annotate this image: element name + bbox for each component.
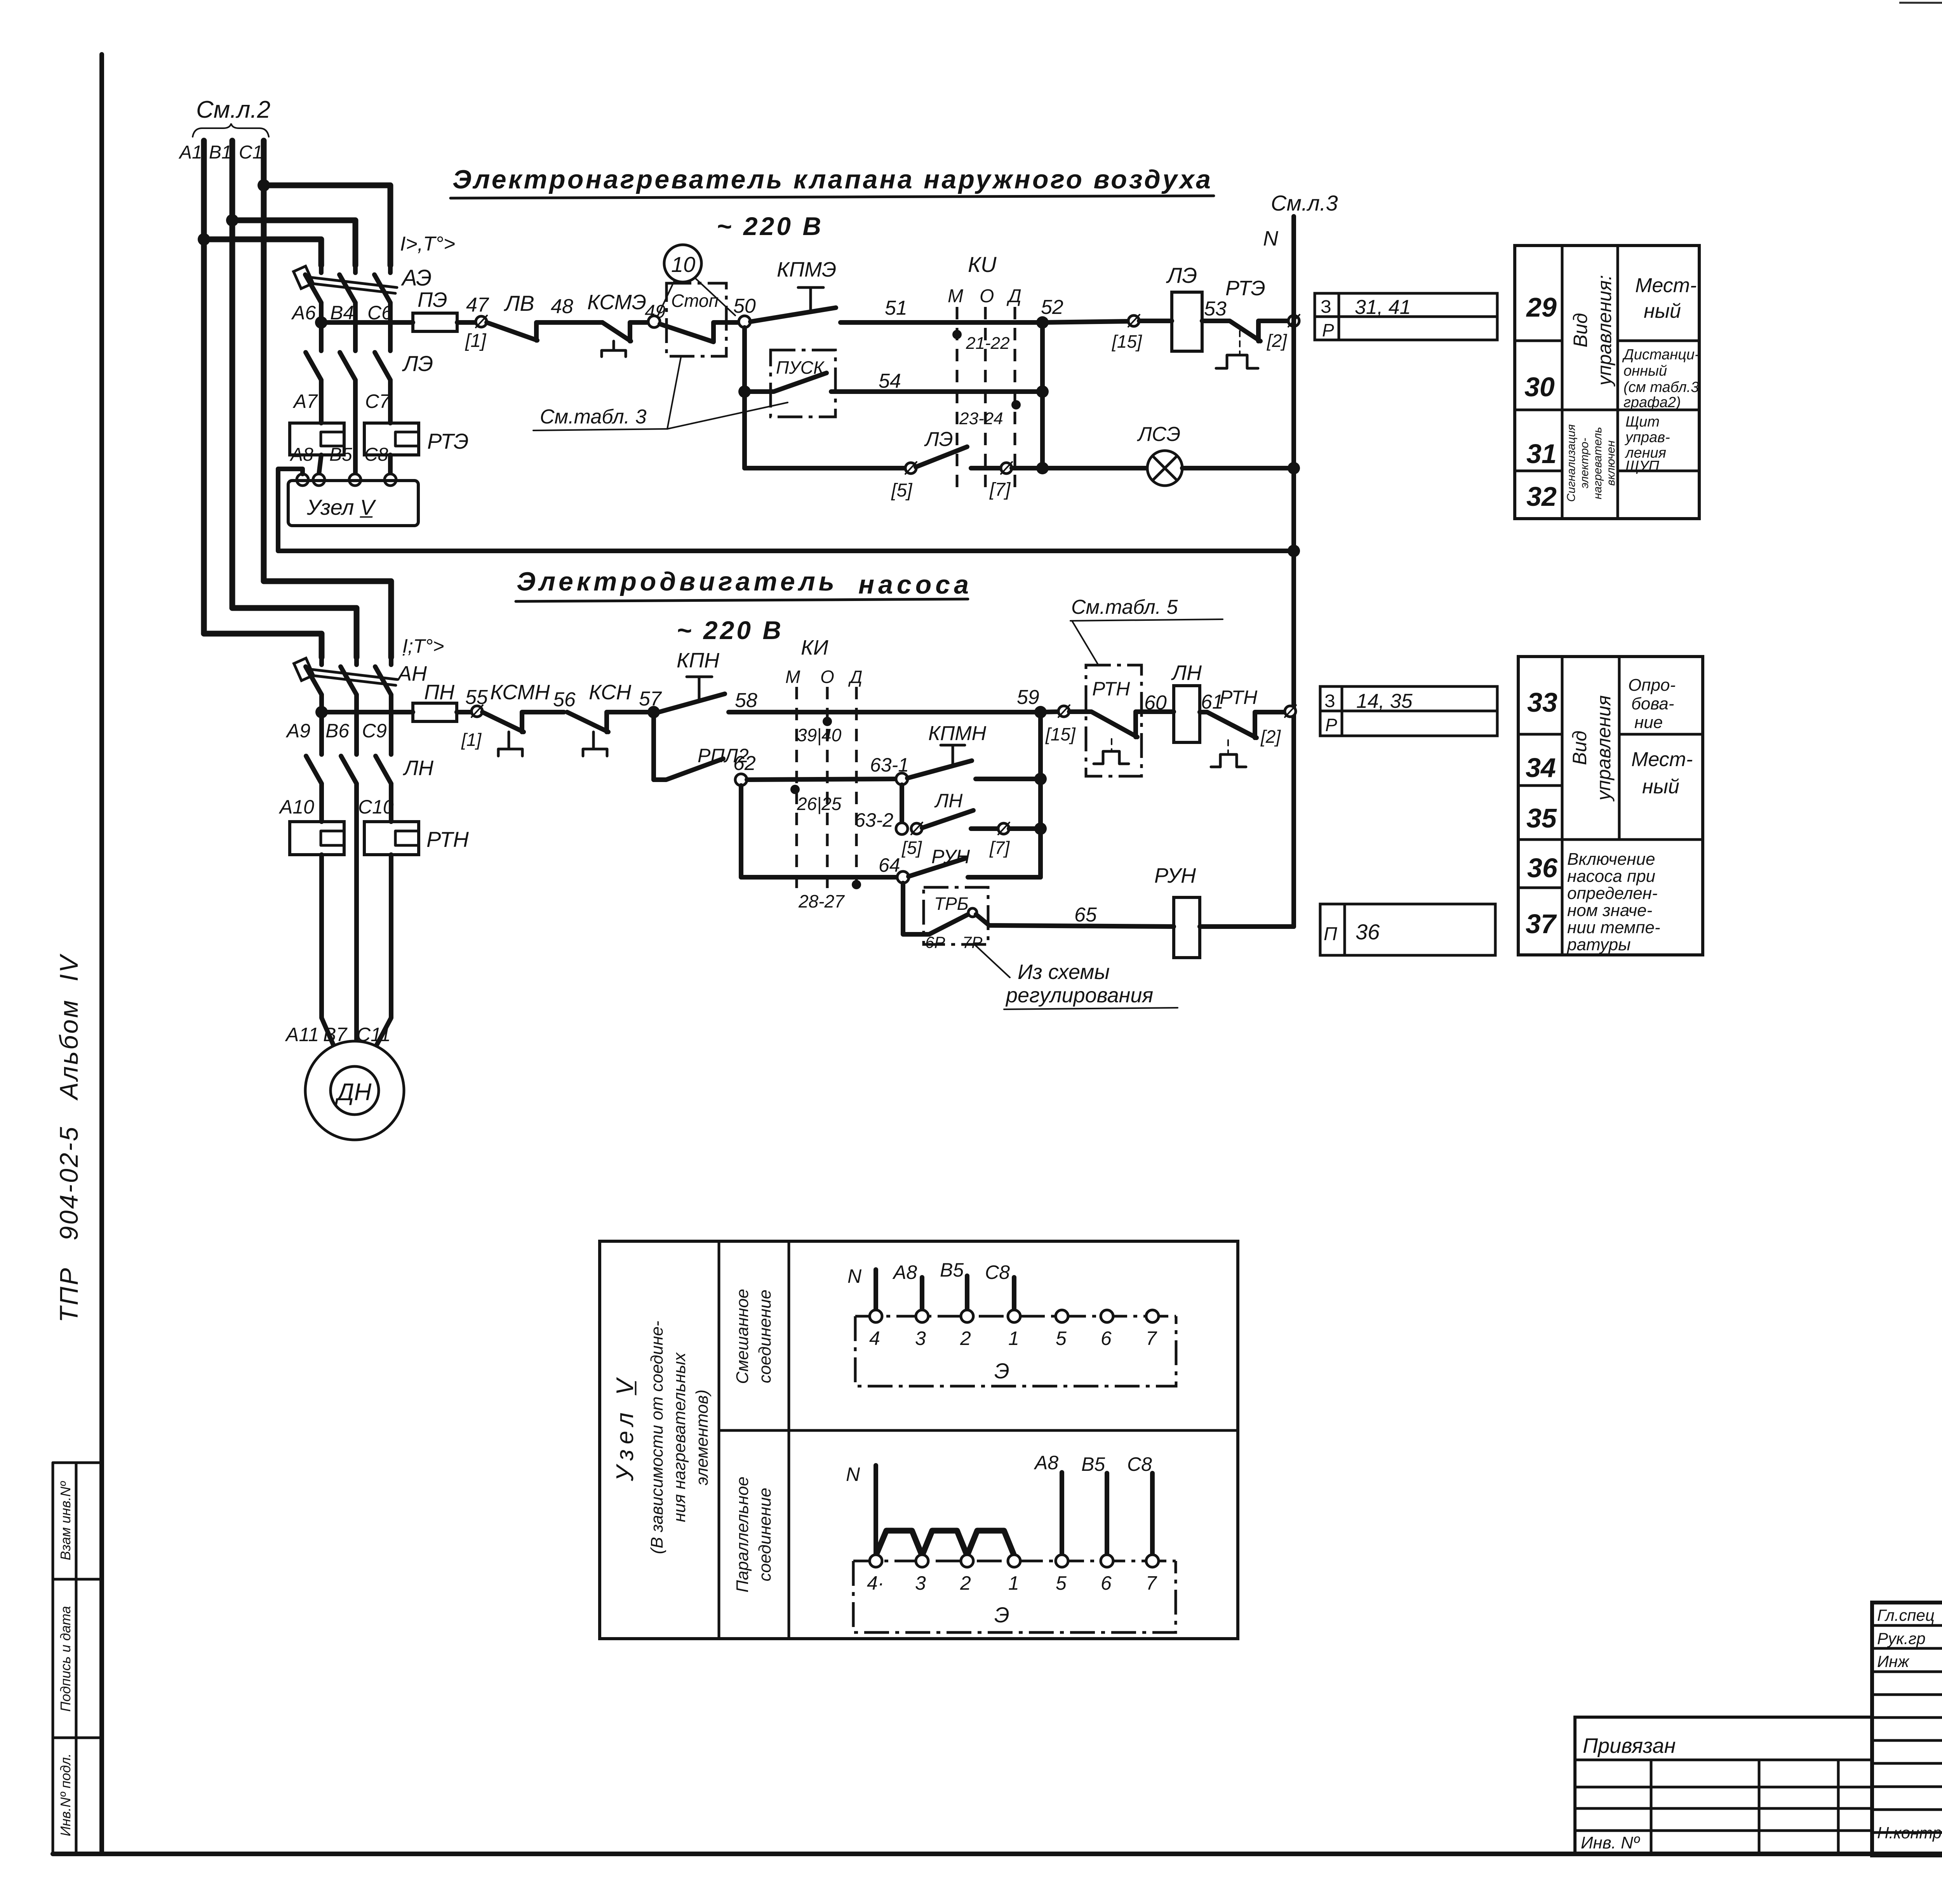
svg-text:(В зависимости от соедине-: (В зависимости от соедине- (647, 1321, 666, 1554)
wire РУН coil to N (1200, 924, 1294, 929)
svg-text:С8: С8 (1127, 1453, 1152, 1475)
terminal 55 (472, 706, 482, 717)
svg-text:См.л.2: См.л.2 (196, 96, 270, 123)
limit switch КСМЭ (NC with plunger) (602, 322, 649, 341)
svg-text:Сигнализация: Сигнализация (1565, 424, 1578, 502)
wire fuse to terminal 55 (457, 710, 472, 714)
svg-text:А8: А8 (289, 444, 313, 465)
svg-text:В1: В1 (209, 142, 232, 163)
contactor ЛН pole С (376, 714, 391, 822)
circuit breaker АЭ pole В (339, 265, 355, 323)
svg-text:ния нагревательных: ния нагревательных (670, 1352, 689, 1522)
svg-text:ПЭ: ПЭ (418, 288, 447, 312)
svg-text:насоса при: насоса при (1567, 867, 1655, 886)
terminal 3 (916, 1310, 928, 1322)
svg-text:ЩУП: ЩУП (1625, 458, 1659, 474)
selector КИ dashed line Д motor (855, 687, 858, 895)
svg-text:В5: В5 (1081, 1453, 1105, 1475)
relay coil РУН (1174, 897, 1200, 958)
svg-text:Смешанное: Смешанное (733, 1289, 752, 1384)
svg-text:65: 65 (1074, 904, 1097, 926)
fuse ПН (413, 703, 457, 721)
svg-text:57: 57 (639, 688, 662, 710)
wire 51 to node 52 (954, 320, 1042, 325)
svg-text:4·: 4· (867, 1572, 884, 1594)
terminal [7] motor (998, 823, 1009, 834)
selector КИ dashed line Д (1014, 307, 1016, 494)
svg-text:АЭ: АЭ (401, 265, 432, 291)
svg-text:36: 36 (1356, 920, 1380, 944)
svg-text:ном значе-: ном значе- (1567, 901, 1652, 920)
svg-text:29: 29 (1526, 292, 1557, 322)
contactor ЛЭ pole А (306, 323, 321, 423)
terminal 1 parallel (1008, 1555, 1020, 1567)
contact РТЭ (NC thermal) (1202, 321, 1289, 341)
title block personnel table (1872, 1603, 1942, 1855)
svg-text:ЛЭ: ЛЭ (402, 351, 433, 376)
svg-text:ТРБ: ТРБ (934, 894, 969, 914)
svg-text:[5]: [5] (891, 480, 913, 501)
svg-text:С8: С8 (985, 1261, 1010, 1283)
thermal symbol РТН (1094, 751, 1129, 764)
svg-text:регулирования: регулирования (1005, 984, 1153, 1007)
svg-text:КСМЭ: КСМЭ (587, 291, 646, 314)
bridge 2-1 (967, 1531, 1014, 1556)
terminal [2] motor on N (1285, 706, 1296, 717)
selector КИ dashed line О motor (826, 687, 829, 895)
svg-text:управ-: управ- (1624, 429, 1670, 446)
terminal [2] heater on N (1288, 315, 1299, 326)
contact point 39-40 on О (823, 717, 832, 726)
svg-text:[5]: [5] (901, 838, 922, 858)
svg-text:КU: КU (968, 252, 997, 277)
junction А1 heater tap (198, 233, 210, 246)
svg-text:А8: А8 (892, 1261, 917, 1283)
terminal [15] motor (1058, 706, 1069, 717)
junction 63-1 row right (1034, 773, 1047, 785)
wire А1 bend to АН pole А (204, 634, 322, 657)
thermal symbol РТЭ (1216, 355, 1258, 368)
svg-text:14, 35: 14, 35 (1356, 690, 1413, 712)
wire 65 to РУН coil (976, 915, 1174, 927)
svg-text:32: 32 (1526, 481, 1557, 512)
svg-text:РУН: РУН (931, 846, 970, 868)
svg-text:С8: С8 (364, 444, 388, 465)
wire [7] to node (1009, 826, 1041, 831)
svg-text:Стоп: Стоп (671, 291, 719, 311)
svg-text:С9: С9 (362, 720, 387, 742)
annotation table rows 33-37 (1518, 657, 1703, 955)
bridge 3-2 (922, 1531, 967, 1556)
svg-text:Дистанци-: Дистанци- (1622, 347, 1700, 363)
svg-text:63-2: 63-2 (854, 809, 893, 831)
terminal 1 (1008, 1310, 1020, 1322)
contact point 23-24 on Д (1011, 400, 1021, 409)
heater title underline (451, 196, 1214, 198)
wire В1 bend to АН pole В (232, 608, 357, 657)
junction node 52 (1036, 316, 1049, 329)
svg-text:ЛН: ЛН (934, 790, 963, 812)
dash-dot top edge (855, 1315, 1176, 1318)
svg-text:35: 35 (1526, 803, 1557, 833)
svg-text:36: 36 (1527, 853, 1558, 883)
svg-text:51: 51 (885, 297, 907, 319)
limit switch КСМН (NC with plunger) (482, 712, 564, 732)
svg-text:элементов): элементов) (693, 1390, 712, 1486)
junction on ПУСК row (738, 385, 751, 398)
svg-text:54: 54 (879, 370, 901, 392)
svg-text:[7]: [7] (989, 838, 1010, 858)
svg-text:28-27: 28-27 (798, 891, 845, 911)
wire heater row А6 to fuse (321, 320, 413, 325)
svg-text:[7]: [7] (989, 479, 1011, 500)
terminal 2 parallel (961, 1555, 973, 1567)
wire dial 10 bubble (664, 245, 701, 282)
svg-text:А1: А1 (178, 142, 202, 163)
terminal circle N of узел V (297, 474, 308, 486)
junction return line on N (1288, 545, 1300, 557)
svg-text:Мест-: Мест- (1631, 748, 1693, 771)
svg-text:М: М (785, 667, 800, 687)
terminal 2 (961, 1310, 973, 1322)
svg-text:РТН: РТН (426, 827, 469, 852)
svg-text:63-1: 63-1 (870, 754, 909, 776)
contact РПЛ2 (NO) (654, 759, 723, 780)
wire [15] to ЛЭ coil (1139, 319, 1172, 323)
svg-text:5: 5 (1056, 1572, 1067, 1594)
svg-text:Узел V̲: Узел V̲ (612, 1373, 639, 1481)
wire РТЭ С to узел (388, 455, 393, 474)
terminal [15] heater (1128, 315, 1139, 326)
contact КПМН (NO button) (907, 761, 1035, 779)
heater block Э dash-dot box parallel (853, 1561, 1176, 1632)
contact ЛН aux (NO) (922, 810, 998, 829)
svg-text:графа2): графа2) (1624, 394, 1681, 411)
svg-text:7: 7 (1146, 1327, 1157, 1349)
leader to Стоп (667, 357, 681, 429)
svg-text:А10: А10 (278, 796, 314, 818)
wire motor row А9 to fuse (322, 710, 413, 714)
contactor ЛН pole А (306, 712, 322, 822)
svg-text:бова-: бова- (1631, 694, 1674, 713)
wire phase bus В1 (230, 141, 235, 608)
svg-text:64: 64 (879, 854, 900, 876)
svg-text:ТПР 904-02-5 Альбом IV: ТПР 904-02-5 Альбом IV (54, 953, 83, 1322)
contact Стоп (NC button) (660, 322, 739, 342)
thermal relay ТРБ box (dash-dot) (924, 887, 988, 944)
junction А6 on heater control row (315, 316, 327, 329)
junction 63-2 row right (1034, 822, 1047, 835)
svg-text:А7: А7 (292, 390, 318, 412)
terminal 7 (1146, 1310, 1159, 1322)
svg-text:Инж: Инж (1877, 1652, 1910, 1671)
motor title underline (516, 599, 968, 601)
wire between [5] blade and [7] (971, 466, 1001, 470)
svg-text:6: 6 (1101, 1572, 1112, 1594)
svg-text:ДН: ДН (335, 1079, 372, 1106)
svg-text:определен-: определен- (1567, 884, 1658, 903)
svg-text:В6: В6 (325, 720, 349, 742)
svg-text:КИ: КИ (801, 636, 828, 659)
wire neutral N vertical (1291, 216, 1296, 927)
svg-text:С10: С10 (358, 796, 394, 818)
limit switch КСН (NC with plunger) (567, 712, 648, 732)
svg-text:ный: ный (1644, 300, 1681, 322)
svg-text:Электродвигатель: Электродвигатель (517, 567, 836, 596)
terminal circle С8 of узел V (385, 474, 396, 486)
svg-text:34: 34 (1526, 753, 1556, 783)
svg-text:С1: С1 (239, 142, 263, 163)
svg-text:Включение: Включение (1567, 850, 1655, 869)
svg-text:59: 59 (1017, 686, 1039, 709)
bridge 4-3 (876, 1531, 922, 1556)
wire lamp to N (1182, 466, 1294, 470)
wire РТЭ А to узел (319, 455, 321, 474)
svg-text:30: 30 (1524, 372, 1555, 402)
svg-text:31: 31 (1526, 439, 1557, 469)
contact ТРБ (929, 915, 968, 934)
junction lamp row on N (1288, 462, 1300, 474)
relay coil ЛЭ (1172, 292, 1202, 351)
svg-text:2: 2 (960, 1572, 971, 1594)
circuit breaker АЭ pole А (305, 265, 321, 323)
svg-text:[2]: [2] (1260, 726, 1281, 747)
svg-text:Э: Э (994, 1359, 1009, 1383)
motor ДН (305, 1041, 404, 1140)
push button Стоп box (dash-dot) (666, 283, 726, 356)
svg-text:Вид: Вид (1569, 731, 1590, 765)
reference box З/Р motor (1320, 686, 1497, 736)
thermal symbol РТН second (1211, 754, 1246, 767)
svg-text:7: 7 (1146, 1572, 1157, 1594)
terminal 63-2 (896, 823, 908, 834)
svg-text:А11: А11 (285, 1024, 319, 1045)
svg-text:Э: Э (994, 1603, 1009, 1627)
terminal 49 (648, 316, 660, 327)
svg-text:ЛН: ЛН (403, 756, 434, 780)
svg-text:3: 3 (915, 1572, 926, 1594)
svg-text:52: 52 (1041, 296, 1063, 319)
junction node 59 (1034, 706, 1047, 718)
svg-text:КСН: КСН (589, 681, 632, 704)
svg-text:10: 10 (671, 252, 695, 277)
svg-text:Ị;T°>: Ị;T°> (402, 635, 444, 657)
svg-text:4: 4 (869, 1327, 880, 1349)
svg-text:56: 56 (553, 688, 576, 711)
svg-text:~ 220 В: ~ 220 В (677, 616, 783, 645)
terminal 64 (897, 871, 909, 883)
wire node to lamp (1042, 466, 1147, 470)
terminal 7 parallel (1146, 1555, 1159, 1567)
svg-text:Мест-: Мест- (1635, 274, 1697, 297)
contact point 26-25 on М (790, 785, 800, 794)
attachment table Привязан (1575, 1717, 1872, 1854)
svg-text:Узел V̲: Узел V̲ (306, 495, 376, 519)
svg-text:РТЭ: РТЭ (1225, 277, 1265, 300)
svg-text:соединение: соединение (755, 1488, 774, 1581)
svg-text:Привязан: Привязан (1583, 1734, 1676, 1758)
svg-text:КПМЭ: КПМЭ (777, 258, 836, 281)
svg-text:Р: Р (1322, 320, 1334, 340)
contact РУН aux (NO) (908, 859, 1041, 877)
svg-text:60: 60 (1144, 692, 1167, 714)
svg-text:электро-: электро- (1578, 438, 1591, 488)
junction 50 vertical (742, 327, 747, 468)
relay coil ЛН (1174, 686, 1200, 742)
svg-text:А6: А6 (291, 302, 316, 324)
svg-text:РУН: РУН (1154, 864, 1196, 887)
svg-text:нии темпе-: нии темпе- (1567, 918, 1660, 937)
terminal 6 (1101, 1310, 1113, 1322)
contactor ЛЭ pole В (340, 323, 355, 480)
contact point 28-27 on Д (852, 880, 861, 889)
svg-text:З: З (1321, 296, 1331, 317)
svg-text:[2]: [2] (1267, 331, 1287, 351)
circuit breaker АЭ trip bar (311, 277, 397, 287)
selector КИ dashed line О (984, 307, 987, 494)
terminal [7] heater (1001, 463, 1012, 474)
contact РТН (NC) inside box (1069, 712, 1174, 737)
wire 63-1 down to 63-2 (900, 785, 904, 823)
svg-text:ЛСЭ: ЛСЭ (1137, 423, 1180, 446)
junction В1 heater tap (226, 214, 238, 226)
wire РТН С to motor (372, 855, 391, 1054)
terminal 5 (1056, 1310, 1068, 1322)
svg-text:55: 55 (465, 686, 488, 709)
contact КПМЭ (NO button) (750, 308, 954, 322)
terminal 6 parallel (1101, 1555, 1113, 1567)
svg-text:I>,T°>: I>,T°> (400, 233, 455, 255)
svg-text:М: М (948, 286, 963, 307)
svg-text:Рук.гр: Рук.гр (1877, 1629, 1926, 1648)
terminal 5 parallel (1056, 1555, 1068, 1567)
wire node 59 to [15] (1041, 712, 1059, 712)
wire [7] to node (1012, 466, 1042, 470)
relay box РТН (dash-dot) (1086, 665, 1142, 776)
heater block Э dash-dot box (855, 1316, 1176, 1386)
contact ПУСК (NO) (745, 373, 1042, 392)
svg-text:О: О (980, 286, 994, 307)
svg-text:2: 2 (960, 1327, 971, 1349)
svg-text:ние: ние (1634, 713, 1663, 732)
svg-text:[15]: [15] (1045, 724, 1076, 744)
svg-text:См.табл. 3: См.табл. 3 (540, 406, 647, 428)
junction lamp row (1036, 462, 1049, 474)
contactor ЛЭ pole С (375, 323, 390, 423)
svg-text:33: 33 (1527, 687, 1557, 718)
thermal element РТН phase А box (290, 822, 344, 855)
svg-text:Опро-: Опро- (1628, 676, 1676, 695)
terminal 4 (870, 1310, 882, 1322)
svg-text:С7: С7 (365, 390, 391, 412)
svg-text:А9: А9 (285, 720, 310, 742)
wire lamp row left (745, 466, 906, 470)
svg-text:1: 1 (1008, 1327, 1019, 1349)
wire 64 down to ТРБ (903, 883, 929, 934)
brace under См.л.2 (193, 124, 269, 137)
svg-text:50: 50 (733, 295, 756, 317)
block Узел V box (288, 481, 418, 526)
svg-text:26|25: 26|25 (797, 794, 842, 814)
svg-text:управления: управления (1593, 695, 1615, 802)
wire РТН А to motor (322, 855, 337, 1054)
thermal element РТН phase С box (364, 822, 419, 855)
circuit breaker АН trip bar (311, 669, 397, 679)
terminal [5] heater (905, 463, 916, 474)
svg-text:Гл.спец: Гл.спец (1877, 1606, 1935, 1624)
svg-text:В5: В5 (940, 1259, 964, 1281)
side table box (52, 1463, 54, 1854)
reference box З/Р heater (1315, 293, 1497, 340)
svg-text:Н.контр: Н.контр (1877, 1824, 1942, 1842)
relay РПЛ2 branch from node 57 (651, 712, 656, 780)
svg-text:соединение: соединение (755, 1289, 774, 1383)
svg-text:Инв.Nº подл.: Инв.Nº подл. (57, 1753, 73, 1836)
svg-text:23-24: 23-24 (959, 409, 1003, 428)
svg-text:онный: онный (1624, 363, 1667, 379)
leader to ПУСК (667, 402, 788, 429)
terminal 62 (735, 774, 747, 786)
svg-text:Параллельное: Параллельное (733, 1477, 752, 1593)
svg-text:П: П (1324, 924, 1337, 944)
wire 62 to 63-1 (747, 779, 896, 780)
svg-text:37: 37 (1526, 909, 1557, 939)
svg-text:РТН: РТН (1220, 686, 1258, 708)
wire node 59 down (1038, 712, 1043, 877)
svg-text:А8: А8 (1034, 1452, 1058, 1474)
selector КИ dashed line М (956, 307, 959, 494)
svg-text:(см табл.3: (см табл.3 (1624, 379, 1699, 395)
thermal element РТЭ phase С box (364, 423, 419, 455)
terminal 50 (739, 316, 750, 327)
drawing frame bottom border (53, 1852, 1942, 1856)
contact РТН second (NC) (1200, 712, 1285, 738)
svg-text:АН: АН (397, 662, 427, 685)
svg-text:РТЭ: РТЭ (427, 429, 469, 453)
terminal 63-1 (896, 773, 908, 785)
junction А9 on motor control row (315, 706, 328, 718)
wire 62 down to 64 row (741, 786, 897, 877)
contact ЛЭ aux (NO) (916, 447, 967, 467)
svg-text:ПН: ПН (424, 681, 455, 704)
wire N stub (874, 1270, 878, 1311)
reference box П motor (1320, 904, 1495, 955)
svg-text:КПМН: КПМН (928, 722, 987, 745)
drawing frame left border (99, 54, 104, 1854)
wire fuse to terminal 47 (457, 320, 476, 325)
circuit breaker АЭ release box (294, 266, 313, 289)
annotation table rows 29-32 (1515, 246, 1699, 519)
svg-text:3: 3 (915, 1327, 926, 1349)
svg-text:[1]: [1] (465, 331, 487, 351)
svg-text:Д: Д (848, 667, 862, 687)
circuit breaker АН release box (294, 658, 314, 681)
svg-text:ЛЭ: ЛЭ (1166, 263, 1197, 287)
svg-text:Взам инв.Nº: Взам инв.Nº (57, 1481, 73, 1561)
wire node 52 to contact [15] (1042, 321, 1128, 322)
svg-text:включен: включен (1604, 441, 1617, 486)
svg-text:1: 1 (1008, 1572, 1019, 1594)
junction return on N at motor row top (1288, 545, 1300, 557)
svg-text:Подпись и дата: Подпись и дата (57, 1606, 73, 1712)
junction node 57 (647, 706, 660, 718)
junction 54 right (1036, 385, 1049, 398)
svg-text:В5: В5 (329, 444, 352, 465)
terminal 4 parallel (870, 1555, 882, 1567)
svg-text:[15]: [15] (1112, 331, 1142, 352)
svg-text:См.л.3: См.л.3 (1271, 191, 1338, 215)
svg-text:Щит: Щит (1625, 414, 1660, 430)
